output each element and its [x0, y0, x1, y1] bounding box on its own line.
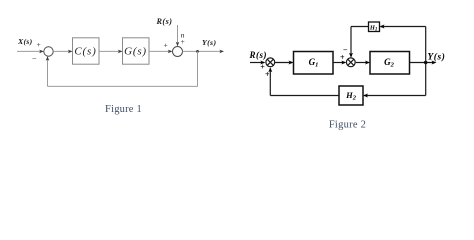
arrowhead down into S2	[176, 42, 180, 47]
svg-text:Figure 2: Figure 2	[329, 120, 366, 131]
svg-text:G(s): G(s)	[124, 45, 147, 57]
wire S4 to block G2	[356, 62, 369, 64]
summing junction S2	[173, 47, 183, 57]
wire R(s) noise into S2	[177, 25, 179, 46]
arrowhead into H1 right side	[380, 25, 385, 29]
arrowhead into S4	[341, 61, 346, 65]
arrowhead into G(s)	[118, 50, 123, 54]
svg-text:−: −	[32, 55, 37, 64]
wire G(s) to summing junction S2	[149, 50, 172, 52]
block H2	[339, 86, 363, 105]
feedback wire bottom run	[48, 85, 198, 87]
svg-text:+: +	[37, 40, 41, 49]
svg-text:R(s): R(s)	[156, 17, 173, 26]
block H1	[369, 22, 380, 32]
wire up into S3	[269, 69, 271, 96]
summing junction S3 crossed circle	[266, 58, 275, 67]
arrowhead at Y(s)	[432, 61, 437, 65]
wire S2 to output Y(s)	[183, 50, 223, 52]
arrowhead into S1	[39, 50, 44, 54]
feedback wire up into S1	[47, 57, 49, 86]
svg-text:−: −	[343, 45, 348, 54]
wire H1 out to above S4	[351, 26, 369, 28]
arrowhead into H2 right side	[363, 94, 368, 98]
summing junction S4 crossed circle	[346, 58, 355, 67]
junction dot on output line	[196, 50, 199, 53]
arrowhead into C(s)	[68, 50, 73, 54]
svg-text:Y(s): Y(s)	[202, 38, 216, 47]
wire G1 to summing junction S4	[333, 62, 345, 64]
wire S1 to block C(s)	[53, 50, 71, 52]
wire C(s) to G(s)	[99, 50, 122, 52]
wire junction up to H1 level	[425, 27, 427, 63]
wire S3 to block G1	[275, 62, 293, 64]
arrowhead into S3	[260, 61, 265, 65]
svg-text:C(s): C(s)	[74, 45, 96, 57]
arrowhead into S2	[168, 50, 173, 54]
block G2	[370, 52, 410, 75]
wire X(s) to summing junction S1	[17, 50, 43, 52]
arrowhead into G1	[289, 61, 294, 65]
wire H2 out to below S3	[270, 95, 339, 97]
arrowhead down into S4	[349, 53, 353, 58]
wire R(s) to summing junction S3	[250, 62, 264, 64]
arrowhead up into S3	[268, 67, 272, 72]
wire top run into H1	[381, 26, 426, 28]
block C(s) controller	[73, 38, 100, 64]
junction dot on output line	[424, 61, 427, 64]
svg-text:+: +	[181, 37, 185, 46]
svg-text:Y(s): Y(s)	[428, 51, 446, 62]
wire G2 to output Y(s)	[410, 62, 436, 64]
block G1	[294, 52, 334, 75]
arrowhead up into S1	[46, 56, 50, 61]
svg-text:Figure 1: Figure 1	[105, 104, 142, 115]
svg-text:R(s): R(s)	[249, 50, 268, 60]
block G(s) plant	[123, 38, 150, 64]
wire bottom run into H2	[364, 95, 426, 97]
svg-text:X(s): X(s)	[17, 37, 33, 46]
summing junction S1	[44, 47, 53, 56]
wire down into S4	[350, 27, 352, 57]
wire junction down to H2 level	[425, 63, 427, 96]
feedback wire down from output	[197, 51, 199, 86]
arrowhead at Y(s)	[219, 50, 224, 54]
arrowhead into G2	[365, 61, 370, 65]
svg-text:+: +	[164, 41, 168, 50]
